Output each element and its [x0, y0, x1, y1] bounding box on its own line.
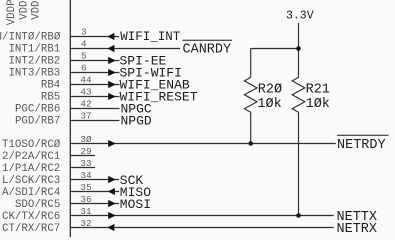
svg-text:N/INTØ/RBØ: N/INTØ/RBØ [0, 32, 61, 44]
svg-text:NETRX: NETRX [337, 222, 378, 237]
svg-text:INT2/RB2: INT2/RB2 [8, 56, 60, 68]
svg-text:INT1/RB1: INT1/RB1 [8, 44, 60, 56]
svg-text:SDO/RC5: SDO/RC5 [15, 199, 60, 211]
svg-text:PGD/RB7: PGD/RB7 [15, 116, 60, 128]
svg-text:32: 32 [80, 218, 91, 229]
svg-text:3: 3 [81, 27, 87, 38]
svg-text:35: 35 [80, 182, 91, 193]
svg-text:A/SDI/RC4: A/SDI/RC4 [2, 187, 60, 199]
svg-text:42: 42 [80, 99, 91, 110]
svg-text:RB5: RB5 [41, 92, 60, 104]
svg-text:33: 33 [80, 158, 91, 169]
svg-text:29: 29 [80, 146, 91, 157]
svg-text:1/P1A/RC2: 1/P1A/RC2 [2, 163, 60, 175]
svg-text:5: 5 [81, 51, 87, 62]
svg-text:CK/TX/RC6: CK/TX/RC6 [2, 211, 60, 223]
svg-text:VDD: VDD [19, 0, 31, 19]
svg-text:R2Ø: R2Ø [258, 83, 282, 98]
svg-text:NPGD: NPGD [121, 113, 152, 128]
svg-text:RB4: RB4 [41, 80, 60, 92]
svg-text:PGC/RB6: PGC/RB6 [15, 104, 60, 116]
svg-text:L/SCK/RC3: L/SCK/RC3 [2, 175, 60, 187]
svg-text:2/P2A/RC1: 2/P2A/RC1 [2, 151, 60, 163]
svg-text:CANRDY: CANRDY [183, 42, 232, 57]
svg-text:MOSI: MOSI [120, 197, 151, 212]
svg-text:CT/RX/RC7: CT/RX/RC7 [2, 223, 60, 235]
svg-text:T1OSO/RCØ: T1OSO/RCØ [2, 139, 61, 151]
svg-text:VDDPLL: VDDPLL [6, 0, 18, 25]
svg-text:3.3V: 3.3V [286, 10, 314, 23]
svg-text:4: 4 [81, 39, 87, 50]
svg-text:1Øk: 1Øk [257, 97, 281, 112]
svg-text:31: 31 [80, 206, 92, 217]
svg-text:3Ø: 3Ø [80, 134, 92, 145]
svg-text:44: 44 [80, 75, 92, 86]
svg-text:6: 6 [81, 63, 87, 74]
svg-text:37: 37 [80, 111, 91, 122]
svg-text:NETRDY: NETRDY [337, 138, 386, 153]
svg-text:R21: R21 [306, 83, 330, 98]
svg-text:1Øk: 1Øk [306, 97, 330, 112]
svg-text:36: 36 [80, 194, 91, 205]
svg-text:WIFI_INT: WIFI_INT [120, 30, 181, 44]
svg-text:43: 43 [80, 87, 91, 98]
svg-text:VDD: VDD [31, 0, 43, 19]
svg-text:INT3/RB3: INT3/RB3 [8, 68, 60, 80]
svg-text:34: 34 [80, 170, 92, 181]
